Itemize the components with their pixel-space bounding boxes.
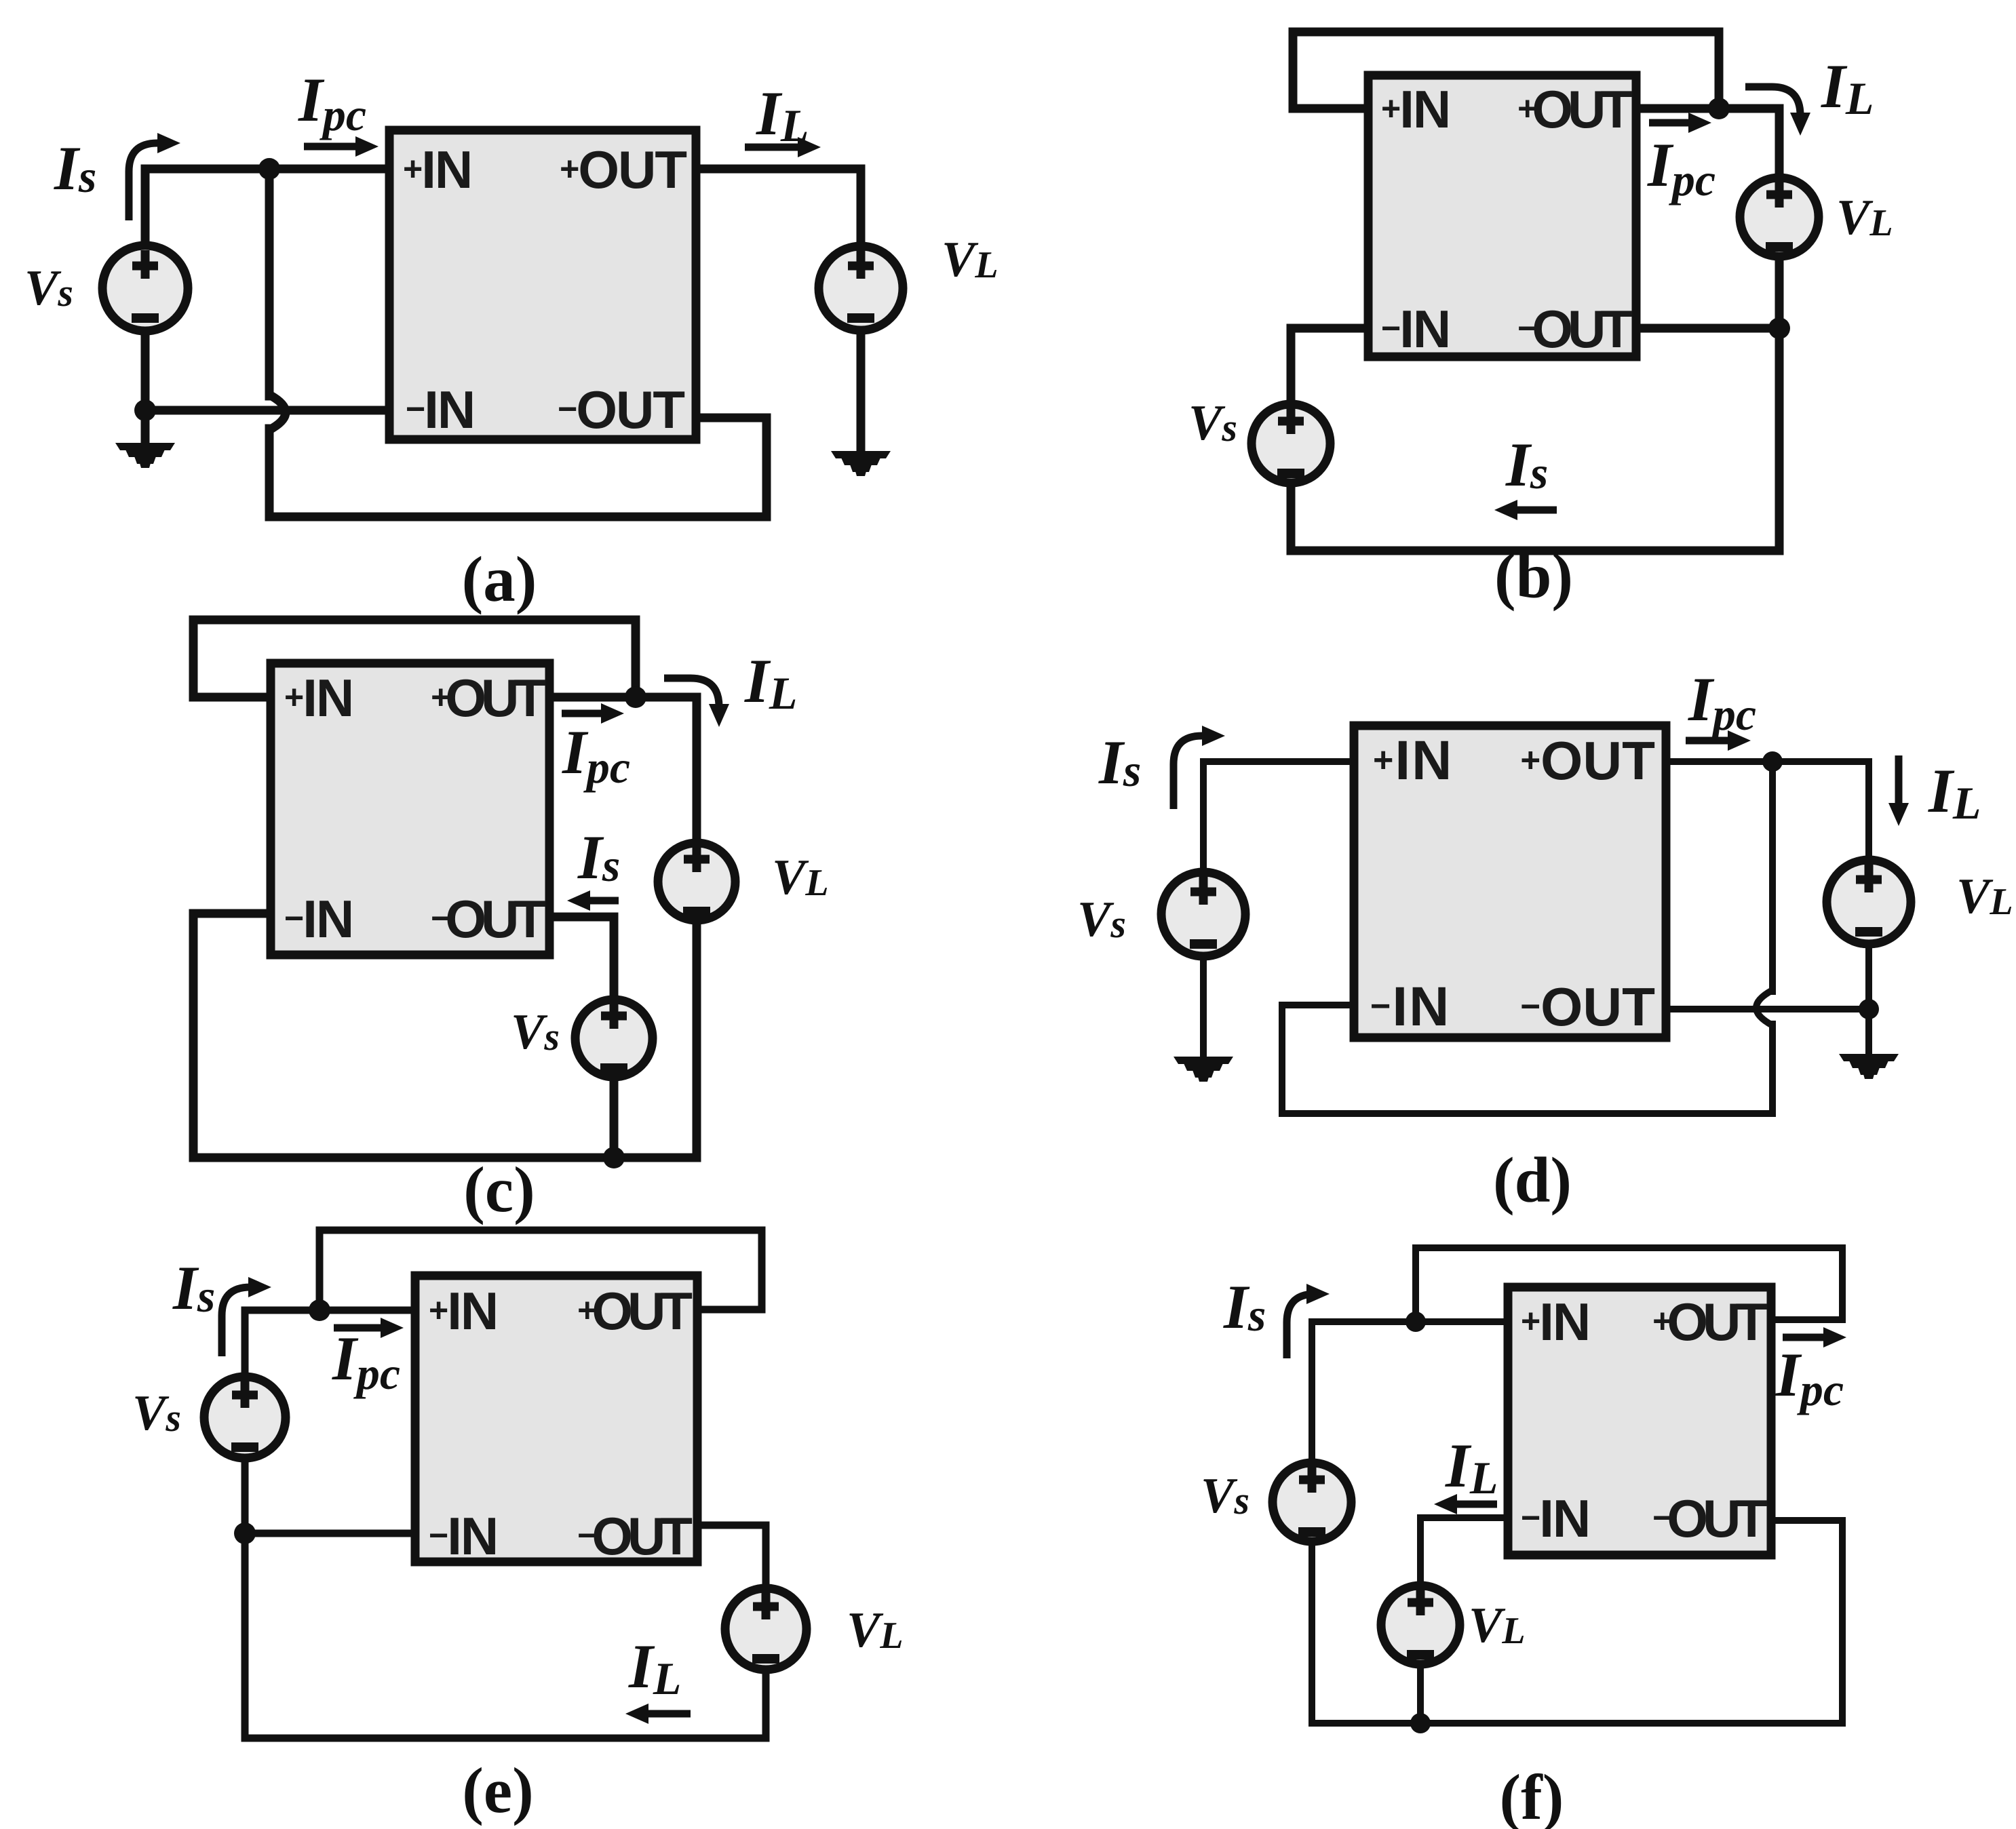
wire ground stem VL (d) [1865,1009,1872,1055]
svg-text:+OUT: +OUT [431,668,545,728]
power converter box U(b) [1368,75,1636,357]
current arrow IL (a) [745,137,821,157]
svg-text:−OUT: −OUT [558,380,684,439]
circuit (d) [1077,665,2013,1216]
wire VL- to -OUT (d) [1666,944,1869,1009]
current arrow Is (c) [567,890,619,911]
wire VL- to bottom return stub (f) [1417,1664,1424,1723]
wire VL+ to -IN (f) [1420,1518,1508,1586]
node +IN junction (a) [258,158,280,180]
node -OUT junction (b) [1768,317,1790,339]
voltage source Vs (a) [102,245,188,331]
svg-text:+OUT: +OUT [1517,79,1632,139]
voltage source Vs (c) [575,1000,653,1077]
wire -OUT node down to bottom return (b) [1291,328,1779,551]
current arrow IL (d) [1888,755,1909,826]
voltage source VL (d) [1827,860,1911,944]
current arrow Is hook (d) [1174,726,1225,809]
svg-text:−OUT: −OUT [577,1506,692,1566]
svg-text:+OUT: +OUT [1520,730,1655,791]
node +OUT junction (c) [625,686,646,708]
circuit (b) [1188,32,1893,612]
wire +OUT to VL+ (c) [549,697,697,843]
wire hop over -IN wire (a) [269,395,286,430]
wire -OUT to Vs+ (c) [549,917,614,1000]
svg-text:−OUT: −OUT [1517,299,1632,359]
current arrow Ipc (f) [1783,1327,1846,1348]
power converter box U(d) [1354,726,1666,1038]
ground at Vs (a) [115,443,175,468]
wire Vs- to ground (d) [1200,956,1207,1058]
wire +OUT to VL (a) [696,169,861,245]
node +OUT junction (d) [1762,751,1783,772]
svg-text:+OUT: +OUT [577,1281,692,1341]
voltage source Vs (d) [1161,872,1245,956]
current arrow IL (f) [1434,1494,1497,1514]
current arrow Ipc (e) [334,1318,404,1338]
power converter box U(f) [1508,1287,1771,1555]
svg-text:(c): (c) [463,1154,535,1225]
current arrow Is (b) [1494,500,1557,520]
node Vs- junction (a) [134,399,156,421]
circuit (c) [193,620,829,1225]
svg-text:(b): (b) [1494,540,1573,612]
wire Vs+ to +IN (f) [1312,1322,1508,1463]
current arrow Ipc (b) [1649,113,1711,133]
wire -IN stub (e) [245,1530,415,1537]
wire +IN feedback loop to +OUT node (c) [193,620,636,697]
current arrow Ipc (c) [562,703,624,724]
current arrow Ipc (d) [1686,730,1751,751]
node Vs- junction (c) [603,1147,625,1168]
svg-text:(d): (d) [1493,1144,1572,1216]
current arrow IL hook (b) [1745,87,1810,136]
wire Vs- to -IN (a) [145,331,389,410]
svg-text:−OUT: −OUT [1652,1489,1767,1548]
svg-text:(a): (a) [462,543,537,615]
wire feedback loop lower to -OUT (a) [269,418,767,517]
wire Vs+ to +IN (e) [245,1310,415,1377]
wire VL- to ground (a) [857,330,866,452]
wire bottom return to -IN loop (c) [193,913,697,1158]
voltage source VL (a) [819,246,903,330]
wire ground stem Vs (a) [141,410,150,444]
wire +IN feedback loop to +OUT node (b) [1293,32,1719,109]
svg-text:(f): (f) [1500,1761,1564,1829]
wire +OUT to VL+ (b) [1636,109,1779,178]
wire -IN node down bottom return to VL- (e) [245,1533,766,1738]
wire Vs- to -IN node (e) [241,1458,249,1533]
wire VL- to -OUT node (b) [1775,256,1784,328]
node +OUT junction (b) [1708,98,1730,119]
voltage source Vs (b) [1252,404,1330,483]
ground at VL (a) [831,451,891,476]
wire Vs+ to +IN (d) [1203,762,1354,872]
wire +OUT node down to bottom loop upper (d) [1769,762,1776,991]
current arrow Is hook (a) [129,133,180,220]
node -OUT junction (d) [1859,999,1879,1019]
wire hop over -OUT wire (d) [1756,990,1772,1025]
wire +OUT feedback loop to +IN node (e) [319,1230,762,1310]
voltage source Vs (f) [1273,1463,1351,1541]
wire VL- to bottom return (c) [693,920,701,1158]
wire +OUT feedback loop to +IN node (f) [1416,1248,1842,1322]
power converter box U(a) [389,130,696,439]
wire -OUT stub (b) [1636,324,1779,333]
wire Vs- to bottom return (f) [1312,1520,1842,1723]
svg-text:+OUT: +OUT [560,140,686,199]
wire bottom loop to -IN (d) [1282,1005,1772,1114]
power converter box U(e) [415,1276,697,1562]
wire VL+ to -OUT (e) [697,1525,766,1588]
circuit (e) [132,1230,904,1826]
wire Vs- to bottom return (c) [610,1077,619,1158]
wire +OUT to VL+ (d) [1666,762,1869,860]
node VL- junction (f) [1410,1713,1431,1733]
circuit (f) [1201,1248,1846,1829]
voltage source Vs (e) [204,1377,286,1458]
current arrow Is hook (f) [1287,1284,1330,1358]
current arrow Is hook (e) [222,1277,271,1356]
current arrow Ipc (a) [304,136,379,157]
svg-text:+OUT: +OUT [1652,1292,1767,1352]
svg-text:−OUT: −OUT [431,889,545,949]
power converter box U(c) [271,663,549,955]
circuit (a) [24,65,999,615]
voltage source VL (c) [658,843,735,920]
wire Vs+ to +IN (a) [145,169,389,245]
ground at Vs (d) [1174,1057,1233,1082]
voltage source VL (f) [1381,1586,1460,1664]
svg-text:(e): (e) [462,1754,533,1826]
wire +IN node down to feedback loop upper (a) [265,169,274,396]
node +IN junction (e) [309,1299,330,1321]
voltage source VL (b) [1740,178,1819,256]
current arrow IL hook (c) [664,678,729,727]
wire Vs+ to -IN (b) [1291,328,1368,404]
svg-text:−OUT: −OUT [1520,977,1655,1037]
node Vs- junction (e) [234,1522,256,1544]
node +IN junction (f) [1406,1312,1426,1332]
voltage source VL (e) [725,1588,807,1670]
current arrow IL (e) [625,1704,691,1724]
ground at VL (d) [1839,1054,1899,1079]
